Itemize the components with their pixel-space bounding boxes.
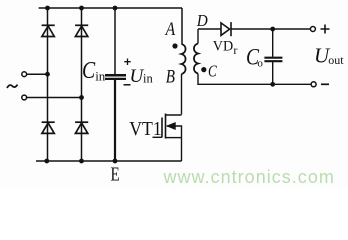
bridge diode bottom-right [75,122,88,133]
wire Co top lead [272,29,274,57]
junction dot node E [113,159,118,164]
svg-text:out: out [328,53,344,67]
mosfet VT1 source stub [166,137,182,139]
svg-text:D: D [196,11,208,30]
bridge diode bottom-left [42,122,55,133]
svg-text:B: B [166,66,176,87]
primary phasing dot near A [172,43,177,48]
wire Cin branch lower (to node E, thick) [114,80,116,161]
wire node D to diode anode [198,28,221,30]
wire diode cathode to plus terminal [231,28,310,30]
svg-text:o: o [257,58,263,70]
junction dot AC1 on left leg [45,72,50,77]
junction dot bottom rail left [44,159,49,164]
transformer secondary winding [194,44,198,74]
svg-text:in: in [95,69,106,84]
junction dot Co top [270,27,275,32]
capacitor Cin plates with polarity [105,75,126,79]
Cin minus sign [124,84,131,86]
wire bottom rail [36,160,182,162]
svg-text:A: A [164,19,175,40]
svg-text:C: C [208,62,218,81]
svg-text:VD: VD [213,38,234,54]
Cin plus sign [124,59,130,66]
wire bridge right leg [81,8,83,161]
bridge diode top-left [42,25,55,36]
mosfet VT1 gate bar [161,118,163,138]
transformer primary winding [182,44,186,74]
junction dot Co bottom [270,82,275,87]
junction dot bottom rail mid [79,159,84,164]
ac source terminal 1 [22,72,27,77]
wire secondary top to node D corner [197,29,199,44]
mosfet VT1 body arrow lead [167,126,182,138]
mosfet VT1 gate lead [153,136,163,138]
svg-text:VT1: VT1 [129,119,162,140]
junction dot AC2 on right leg [79,95,84,100]
output terminal minus [311,82,316,87]
wire top rail [39,7,182,9]
ac source terminal 2 [22,95,27,100]
wire mosfet source down to bottom rail [181,138,183,161]
junction dot top rail left [45,6,50,11]
secondary phasing dot near C [201,67,206,72]
wire Cin branch upper [114,8,116,74]
svg-text:in: in [143,72,153,86]
capacitor Co plates [264,58,282,62]
output terminal plus [310,27,315,32]
diode VDr triangle [221,23,230,36]
mosfet VT1 drain stub [166,114,182,116]
wire node B down to mosfet drain [181,74,183,115]
wire AC line 1 [27,73,48,75]
bridge diode top-right [75,25,88,36]
ac source tilde symbol [7,85,18,88]
wire primary drop from rail to node A [181,8,184,44]
mosfet VT1 channel bar [165,114,167,139]
svg-text:www.cntronics.com: www.cntronics.com [163,167,335,187]
output minus sign [321,83,329,85]
wire node C to minus terminal [198,74,311,85]
output plus sign [321,25,330,34]
diode VDr cathode bar [230,22,232,36]
junction dot top rail mid [79,6,84,11]
wire AC line 2 [27,97,82,99]
wire Co bottom lead [272,62,274,84]
wire bridge left leg [47,8,49,161]
mosfet VT1 body arrowhead [167,123,175,130]
junction dot top rail Cin [113,6,118,11]
svg-text:E: E [111,163,120,185]
svg-text:C: C [82,58,96,84]
svg-text:r: r [233,43,237,57]
